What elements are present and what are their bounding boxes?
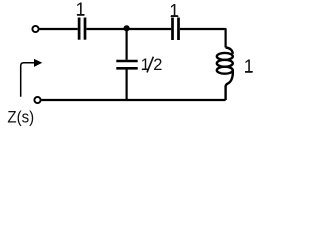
wire (C1 to C2 through node): [86, 28, 171, 30]
arrow (Z(s) looking-in arrow): [21, 59, 43, 97]
wire (C2 to top-right corner and down to inductor): [180, 29, 226, 48]
label 1 (L1 value): [244, 57, 254, 77]
svg-text:1: 1: [141, 56, 150, 74]
svg-text:1: 1: [169, 1, 179, 21]
wire (node down to C3): [125, 29, 127, 60]
terminal (bottom-left, open circle): [34, 97, 40, 103]
wire (top terminal to C1): [40, 28, 78, 30]
inductor L1 value 1 (coil): [217, 48, 233, 101]
capacitor C2 value 1 (series, top-right): [173, 18, 179, 41]
capacitor C3 value 1/2 (shunt): [116, 61, 137, 68]
svg-text:1: 1: [244, 57, 254, 77]
svg-text:Z(s): Z(s): [7, 108, 34, 127]
wire (bottom, from inductor to bottom terminal): [42, 99, 226, 101]
label 1/2 (C3 value): [141, 56, 163, 74]
wire (C3 down to bottom wire): [125, 70, 127, 101]
svg-text:1: 1: [75, 0, 85, 20]
capacitor C1 value 1 (series, top-left): [79, 18, 85, 40]
node junction dot: [124, 25, 130, 31]
svg-text:2: 2: [153, 56, 162, 74]
terminal (top-left, open circle): [32, 26, 38, 32]
label 1 (C1 value): [75, 0, 85, 20]
label 1 (C2 value): [169, 1, 179, 21]
